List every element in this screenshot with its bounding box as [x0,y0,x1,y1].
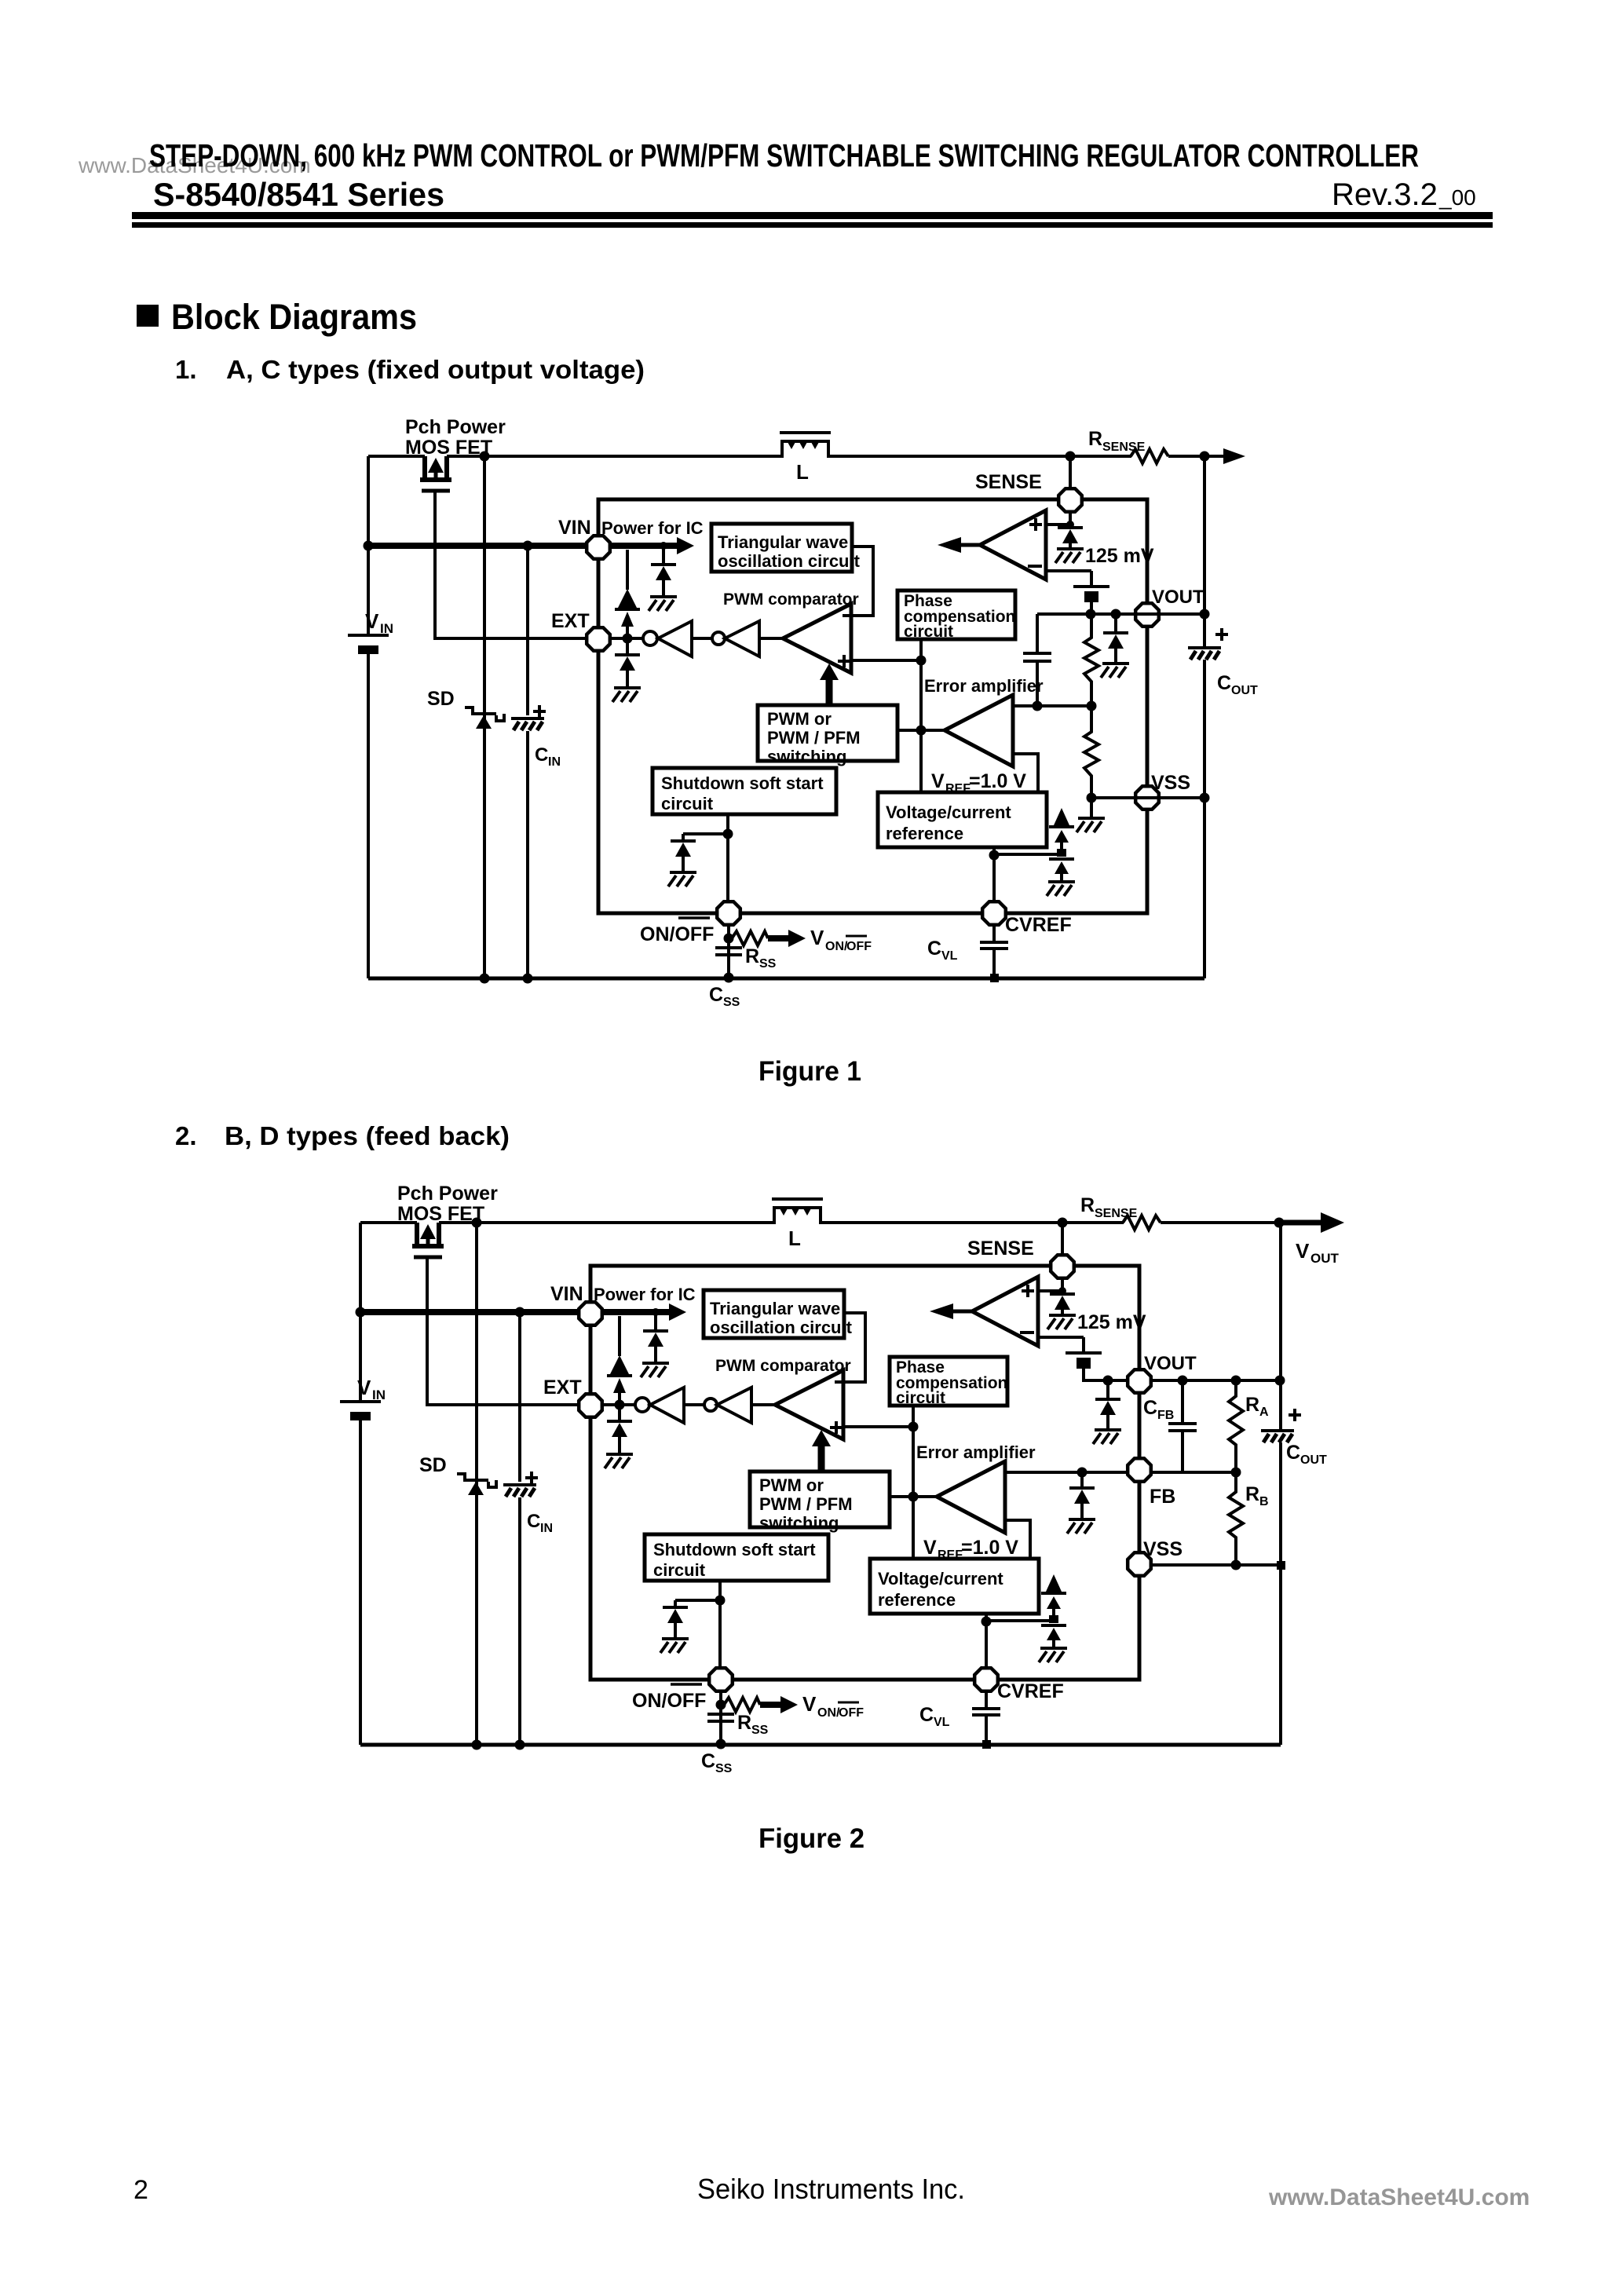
svg-text:OUT: OUT [1310,1251,1340,1266]
fig2 capacitor CFB [1168,1380,1197,1472]
header double rule [132,212,1493,219]
fig2 resistor RB [1229,1472,1243,1565]
section bullet [137,305,159,327]
figure 1 circuit common [348,416,1204,1009]
fig2 wire: VOUT line external [1152,1379,1281,1382]
svg-text:2.: 2. [175,1121,197,1150]
svg-text:FB: FB [1157,1409,1174,1422]
fig1 resistor divider lower [1084,706,1098,798]
svg-text:Block Diagrams: Block Diagrams [171,297,417,337]
fig2 wire: bottom rail right [1013,1743,1281,1747]
svg-text:STEP-DOWN, 600 kHz PWM CONTROL: STEP-DOWN, 600 kHz PWM CONTROL or PWM/PF… [149,137,1419,174]
svg-text:www.DataSheet4U.com: www.DataSheet4U.com [1268,2184,1530,2210]
fig1 wire: offset battery to VOUT [1090,602,1093,614]
svg-text:A: A [1259,1406,1269,1419]
svg-text:FB: FB [1150,1486,1175,1508]
fig1 resistor divider upper [1084,614,1098,706]
fig2 node: output rail top [1274,1218,1285,1228]
fig2 wire: VSS line [1152,1563,1281,1567]
svg-text:2: 2 [133,2175,148,2205]
fig2 wire: output rail vertical [1279,1223,1282,1429]
fig1 capacitor phase comp [1036,614,1039,653]
fig2 nodes on VOUT line [1103,1376,1113,1386]
fig1 wire: bottom rail right [1021,977,1204,981]
svg-text:B: B [1259,1495,1269,1508]
fig2 resistor RA [1229,1380,1243,1472]
svg-text:R: R [1245,1483,1259,1505]
svg-text:C: C [1217,672,1231,694]
svg-text:Rev.3.2: Rev.3.2 [1332,177,1438,212]
fig2 diode FB clamp [1080,1472,1084,1488]
fig2 wire: FB line [1005,1471,1236,1474]
fig2 wire: top rail right + output arrow [1161,1221,1281,1224]
fig1 node: output rail top [1200,452,1210,462]
svg-text:B, D types (feed back): B, D types (feed back) [225,1121,510,1150]
fig2 wire: offset battery to VOUT [1084,1369,1126,1380]
svg-text:R: R [1245,1394,1259,1416]
figure 2 circuit common [340,1183,1197,1775]
svg-text:_00: _00 [1438,185,1476,210]
svg-text:Figure 2: Figure 2 [758,1823,865,1854]
svg-text:OUT: OUT [1300,1453,1327,1467]
svg-text:C: C [1143,1397,1157,1419]
svg-text:A, C types (fixed output volta: A, C types (fixed output voltage) [226,355,645,384]
svg-text:Figure 1: Figure 1 [758,1056,861,1087]
svg-text:V: V [1296,1239,1310,1263]
svg-text:Seiko Instruments Inc.: Seiko Instruments Inc. [697,2173,965,2205]
svg-text:OUT: OUT [1231,684,1258,697]
fig1 wire: output rail vertical [1203,456,1206,646]
fig1 wire: VSS line [1091,796,1204,799]
svg-text:S-8540/8541 Series: S-8540/8541 Series [153,176,444,213]
fig1 wire: error amp sense input [1013,704,1091,707]
fig1 nodes on VOUT line [1086,609,1096,620]
svg-text:1.: 1. [175,355,197,384]
fig2 pad FB [1128,1458,1151,1482]
svg-text:C: C [1286,1442,1300,1464]
fig1 capacitor COUT [1188,648,1221,660]
fig1 wire: VOUT line [1037,612,1204,616]
fig1 wire: top rail right + output arrow [1168,455,1223,458]
fig1 ground divider [1090,798,1093,817]
fig2 ground FB clamp [1067,1519,1095,1534]
fig2 capacitor COUT [1261,1431,1294,1442]
